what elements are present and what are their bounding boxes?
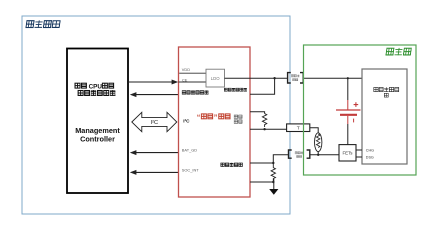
svg-text:”: ” [214, 112, 218, 121]
protector IC box [362, 69, 407, 164]
wire: pack+ contact to protector [303, 77, 362, 79]
junction dot battery stem [347, 77, 349, 79]
svg-text:FETs: FETs [342, 151, 353, 156]
connector contact pack- (bracket pair) [289, 150, 310, 158]
thermistor RT1 (ellipse with zigzag) [315, 133, 322, 152]
wire: thermistor to pack- net [317, 152, 319, 155]
svg-text:CHG: CHG [366, 148, 374, 152]
wire: SOC_INT to host (arrow left) [130, 170, 179, 175]
svg-text:VDD: VDD [182, 67, 190, 72]
junction dot thermistor/pack- [317, 154, 319, 156]
I2C bus double arrow [132, 112, 177, 131]
connector contact pack+ (bracket pair) [288, 73, 304, 83]
svg-text:I²C: I²C [151, 120, 158, 126]
fuel gauge U2 (red outlined box) [179, 47, 251, 197]
label: current measurement (CJK bold) [221, 163, 243, 167]
svg-text:Controller: Controller [80, 135, 115, 144]
wire: SRP pin to pack- net [250, 155, 289, 163]
label: identification resistor (CJK two lines) [234, 115, 242, 123]
node label: host system title [26, 20, 60, 28]
wire: BAT sense pin joining pack+ net [250, 78, 275, 94]
LDO regulator block [206, 69, 225, 87]
battery cell BT1 (red symbol) [336, 100, 361, 124]
wire: battery cell to FETs [347, 124, 349, 145]
svg-text:CPU: CPU [89, 83, 103, 90]
wire: SRN pin [250, 181, 273, 183]
svg-text:DSG: DSG [366, 156, 374, 160]
wire VDD to LDO [179, 72, 206, 74]
wire: pack+ down to battery cell [347, 78, 349, 100]
wire: pack- contact to FETs [310, 154, 339, 156]
label: battery voltage measurement (CJK bold) [224, 88, 247, 91]
wire: thermistor bias pin [250, 112, 265, 114]
label: host CPU / power management controller (CJK) [75, 83, 115, 96]
junction dot SRP [272, 162, 274, 164]
wire: FETs CHG gate [356, 149, 362, 151]
svg-text:“: “ [197, 112, 201, 121]
wire: TS pin to T contact [250, 128, 287, 130]
wire: regulator output to host (arrow left) [130, 92, 179, 97]
connector contact T (thermistor terminal) [287, 124, 310, 132]
wire CE to LDO [179, 81, 207, 83]
svg-text:SOC_INT: SOC_INT [182, 167, 199, 172]
label: battery gauging (CJK bold) [182, 90, 208, 94]
ground symbol [269, 179, 278, 195]
sense resistor R2 [271, 163, 275, 182]
label: protection device (CJK) [374, 87, 399, 97]
node label: battery pack title (green CJK) [386, 48, 411, 55]
wire: CE control from host to gauge (arrow right) [128, 80, 178, 85]
svg-text:T: T [297, 126, 300, 132]
FETs Q1 box [339, 145, 356, 161]
junction dot on pack+ net [273, 77, 275, 79]
management controller U1 (host CPU box) [67, 49, 128, 194]
wire: LDO output to pack+ contact [225, 77, 288, 79]
battery pack box (green outline) [304, 45, 417, 175]
junction dot TS node [263, 128, 265, 130]
svg-text:I²C: I²C [183, 118, 190, 123]
wire: FETs DSG gate [356, 156, 362, 158]
host system box (blue outline) [22, 16, 290, 214]
label: gauge solution name (red quoted text) [197, 112, 230, 121]
svg-text:LDO: LDO [211, 76, 220, 81]
resistor R1 (thermistor pull-up) [262, 114, 266, 127]
junction dot SRN [272, 181, 274, 183]
wire: T contact to thermistor [310, 128, 318, 133]
wire: BAT_GD to host (arrow left) [130, 150, 179, 155]
svg-text:BAT_GD: BAT_GD [182, 148, 197, 153]
